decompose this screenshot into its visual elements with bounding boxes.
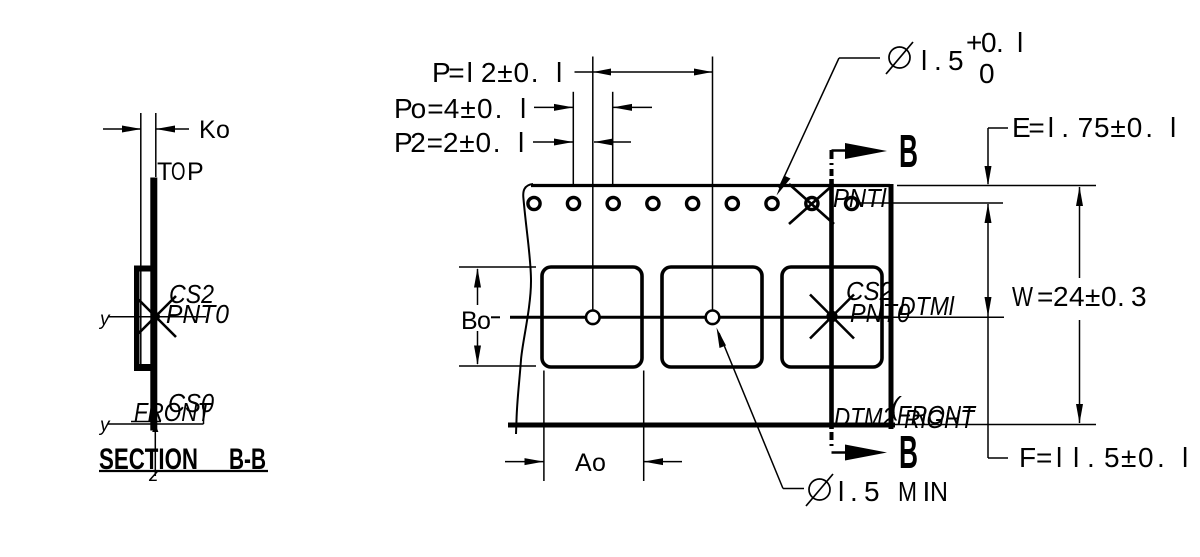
pocket 2 xyxy=(662,267,762,367)
tape right edge xyxy=(889,184,894,429)
pocket 1 center hole xyxy=(586,311,600,325)
svg-text:E=l.75±0.l: E=l.75±0.l xyxy=(1012,112,1176,143)
sprocket hole 6 xyxy=(726,197,738,209)
tape cross-section main vertical wall xyxy=(151,178,157,430)
pocket bump top wall xyxy=(135,266,154,271)
svg-text:RIGHT: RIGHT xyxy=(904,404,976,434)
pocket bump bottom wall xyxy=(135,365,156,371)
diameter 1.5 MIN leader xyxy=(783,488,804,490)
svg-text:Bo: Bo xyxy=(461,307,491,335)
Po dimension arrows xyxy=(534,106,573,108)
sprocket hole 2 xyxy=(567,197,579,209)
svg-text:PNT0: PNT0 xyxy=(166,299,230,329)
point marker X (PNT0/CS2) in section xyxy=(135,296,176,337)
FRONT underline xyxy=(131,421,161,423)
svg-text:0: 0 xyxy=(979,58,995,89)
sprocket hole center extension line right xyxy=(860,202,1003,204)
svg-text:Ko: Ko xyxy=(199,116,230,144)
E dimension bracket and arrow xyxy=(988,127,1008,129)
pocket 2 center hole xyxy=(706,311,720,325)
pocket centerline (thick) xyxy=(510,316,892,319)
svg-text:DTMl: DTMl xyxy=(899,291,955,321)
Po extension line 1 (hole 2) xyxy=(572,92,574,184)
P extension line 1 (pocket 1 center) xyxy=(592,57,594,311)
svg-text:Ao: Ao xyxy=(575,449,606,477)
Bo dimension line with arrows xyxy=(477,269,479,364)
point marker X on hole 8 (PNT1) xyxy=(789,184,834,224)
Bo extension line bottom xyxy=(459,365,536,367)
svg-text:FRONT: FRONT xyxy=(134,397,213,427)
diameter symbol of 1.5 callout xyxy=(889,47,910,68)
y axis line (bottom) with riser xyxy=(108,423,204,425)
Ko extension line right xyxy=(155,113,157,177)
sprocket hole 1 xyxy=(528,197,540,209)
diameter 1.5 callout leader xyxy=(839,57,880,59)
section line B-B dash-dot top xyxy=(830,150,834,159)
sprocket hole 3 xyxy=(607,197,619,209)
tape left broken (wavy) edge xyxy=(516,184,533,434)
tape top edge xyxy=(531,184,890,187)
section arrow B bottom xyxy=(832,451,849,454)
pocket bump left wall xyxy=(135,266,140,371)
pocket 1 xyxy=(542,267,642,367)
tape bottom edge xyxy=(508,423,895,428)
Bo extension line top xyxy=(459,266,536,268)
sprocket hole 9 xyxy=(846,197,858,209)
Ao extension line left xyxy=(543,371,545,482)
P2 dimension arrows xyxy=(533,141,573,143)
sprocket hole 7 xyxy=(766,197,778,209)
SECTION title underline xyxy=(99,470,268,472)
sprocket hole 4 xyxy=(647,197,659,209)
Ko dimension line right with arrow xyxy=(156,128,189,130)
svg-text:F=ll.5±0.l: F=ll.5±0.l xyxy=(1019,442,1188,473)
top edge thin extension right (E/W extension) xyxy=(897,185,1096,187)
Ko extension line left xyxy=(140,113,142,368)
section arrow B top xyxy=(832,149,849,152)
pocket 3 xyxy=(782,267,882,367)
centerline thin extension right xyxy=(892,316,1004,318)
W dimension line with arrows xyxy=(1079,187,1081,278)
sprocket hole 8 xyxy=(806,197,818,209)
svg-text:PNTl: PNTl xyxy=(833,183,887,213)
svg-text:DTM2: DTM2 xyxy=(834,402,895,432)
sprocket hole 5 xyxy=(687,197,699,209)
P extension line 2 (pocket 2 center) xyxy=(712,57,714,311)
svg-text:y: y xyxy=(98,415,111,436)
svg-text:y: y xyxy=(98,309,111,330)
section line B-B dash-dot bottom xyxy=(830,432,834,440)
point marker X at pocket 3 center (PNT0/CS2/DTM1) xyxy=(810,295,854,339)
section line B-B main xyxy=(829,179,834,429)
diameter symbol of 1.5 MIN xyxy=(809,479,830,500)
svg-text:B: B xyxy=(899,125,918,177)
P dimension line with arrows xyxy=(575,71,713,73)
z axis arrowhead xyxy=(152,424,158,432)
Ko dimension line left with arrow xyxy=(103,128,142,130)
F dimension line with arrows xyxy=(987,204,989,458)
centerline detached dash left xyxy=(488,316,500,318)
Ao extension line right xyxy=(643,371,645,482)
Bo value label xyxy=(459,305,491,331)
z axis line below section xyxy=(154,430,156,476)
y axis line (mid) xyxy=(109,316,207,318)
Ao dimension arrows xyxy=(505,461,544,463)
bottom edge thin extension right xyxy=(895,424,1096,426)
Po extension line 2 (hole 3) xyxy=(612,92,614,184)
svg-text:TOP: TOP xyxy=(157,158,204,186)
